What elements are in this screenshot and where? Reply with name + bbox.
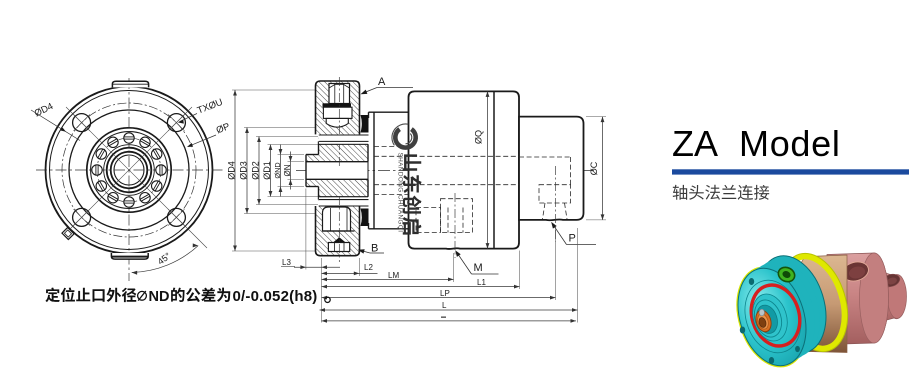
- svg-text:SHANDONG CHUANGQI: SHANDONG CHUANGQI: [397, 153, 404, 233]
- top tab: [111, 81, 148, 259]
- L2 dimension: [322, 272, 378, 274]
- screw head 11 on inner bolt circle: [152, 149, 162, 159]
- 3d render: small end cylinder: [868, 268, 906, 325]
- hidden dashed lines: [374, 146, 571, 232]
- top bolt assembly (A type): [316, 81, 360, 134]
- 3d render: cyan disc face: [727, 260, 817, 374]
- screw head 3 on inner bolt circle: [96, 149, 106, 159]
- watermark C logo: [395, 129, 415, 148]
- dimension line diameter N: [290, 152, 292, 190]
- svg-text:ØD3: ØD3: [238, 161, 248, 180]
- screw head 6 on inner bolt circle: [108, 193, 118, 203]
- bottom bolt assembly (B type): [316, 206, 360, 256]
- LM dimension: [322, 278, 454, 280]
- svg-text:ZA: ZA: [672, 123, 718, 164]
- svg-text:L: L: [442, 301, 447, 310]
- 3d render: big pink cylinder: [827, 253, 889, 345]
- screw head 4 on inner bolt circle: [92, 165, 102, 175]
- watermark character 山: [403, 154, 422, 170]
- svg-text:ND: ND: [149, 289, 170, 305]
- watermark character 创: [403, 195, 422, 213]
- sleeve between flange and body: [369, 112, 409, 229]
- bottom dimension extension lines: [306, 189, 578, 323]
- 3d render: tan cylinder: [795, 255, 848, 353]
- flange bolt hole at 45 deg with X mark: [167, 114, 185, 132]
- label OD4 front: [31, 97, 231, 147]
- svg-text:ØN: ØN: [283, 164, 292, 176]
- svg-text:ØD1: ØD1: [262, 161, 272, 180]
- yellow rim sliver around disc edge: [726, 259, 819, 376]
- screw head 8 on inner bolt circle: [140, 193, 150, 203]
- centerlines front view: [36, 78, 224, 281]
- orange hub: [753, 308, 773, 333]
- svg-text:L2: L2: [364, 263, 373, 272]
- black elastomer blobs: [361, 115, 369, 133]
- screw head 10 on inner bolt circle: [156, 165, 166, 175]
- screw head 1 on inner bolt circle: [124, 133, 134, 143]
- big cylinder body: [409, 91, 520, 249]
- bottom tab: [111, 253, 148, 259]
- screw head 9 on inner bolt circle: [152, 181, 162, 191]
- hub outline: [319, 143, 369, 145]
- svg-text:ØQ: ØQ: [474, 130, 484, 144]
- flange bolt hole at 135 deg with X mark: [73, 114, 91, 132]
- bottom-most dimension line: [322, 320, 577, 322]
- watermark character 启: [403, 217, 422, 235]
- svg-text:LM: LM: [388, 271, 399, 280]
- screw head 2 on inner bolt circle: [108, 137, 118, 147]
- svg-text:A: A: [378, 76, 386, 88]
- svg-text:M: M: [474, 262, 483, 274]
- dimension line diameter D2: [258, 137, 260, 205]
- flange left face segments: [318, 141, 320, 154]
- section view centerline: [296, 170, 594, 172]
- dimension line diameter ND: [280, 145, 282, 197]
- title ZA Model: [672, 123, 841, 164]
- L dimension: [320, 309, 578, 311]
- screw head 5 on inner bolt circle: [96, 181, 106, 191]
- svg-text:LP: LP: [440, 289, 450, 298]
- OQ dimension: [474, 91, 607, 248]
- LP dimension: [322, 297, 556, 299]
- screw head 12 on inner bolt circle: [140, 137, 150, 147]
- svg-text:L3: L3: [282, 258, 291, 267]
- green plug: [776, 265, 797, 285]
- P hole hidden: [539, 185, 571, 203]
- svg-text:ØD2: ØD2: [250, 161, 260, 180]
- bore white: [306, 162, 368, 180]
- labels A B M P: [358, 76, 596, 274]
- subtitle 轴头法兰连接: [673, 185, 687, 200]
- front view flange: [46, 87, 213, 254]
- small face holes: [749, 278, 754, 285]
- flange bolt hole at 225 deg with X mark: [73, 208, 91, 226]
- screw head 7 on inner bolt circle: [124, 197, 134, 207]
- blue divider bar: [672, 169, 909, 174]
- svg-text:ØD4: ØD4: [226, 161, 236, 180]
- svg-text:0/-0.052(h8): 0/-0.052(h8): [233, 288, 318, 305]
- 3d render: cyan disc side band: [747, 247, 837, 361]
- OC dimension: [602, 117, 604, 220]
- L1 dimension: [322, 286, 520, 288]
- 3d render: yellow elastomer ring: [773, 249, 855, 357]
- svg-text:ØND: ØND: [273, 162, 282, 178]
- M hole hidden rects: [416, 208, 441, 233]
- spigot outline: [306, 141, 368, 199]
- flange bolt hole at 315 deg with X mark: [167, 208, 185, 226]
- svg-text:ØC: ØC: [589, 161, 599, 175]
- hatched flange + hub + spigot: [306, 81, 368, 256]
- svg-text:P: P: [569, 233, 576, 245]
- 45 degree dimension arc: [132, 246, 199, 273]
- dimension line diameter D3: [246, 128, 248, 214]
- small lug at 225 deg: [62, 227, 74, 239]
- dimension line diameter D4: [234, 90, 236, 251]
- svg-text:L1: L1: [477, 278, 486, 287]
- L3 dimension: [281, 258, 578, 323]
- watermark character 东: [403, 175, 422, 193]
- dimension column ØD4..ØN: [226, 90, 292, 251]
- dimension line diameter D1: [270, 145, 272, 197]
- white band above flange (top): [319, 135, 369, 141]
- svg-text:Model: Model: [739, 123, 841, 164]
- note: 定位止口外径 ØND tolerance: [45, 288, 59, 303]
- shaft right: [519, 117, 584, 221]
